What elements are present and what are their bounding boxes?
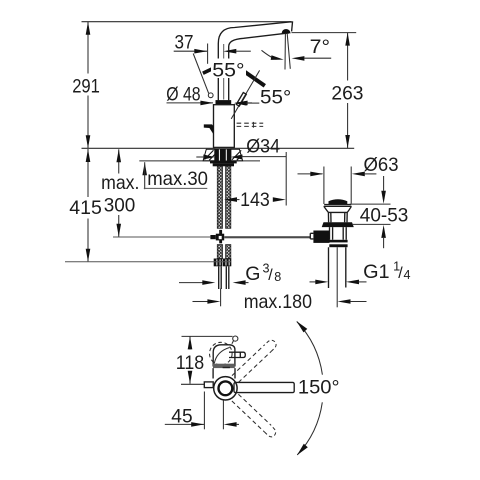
55deg second axis diagonal [231, 70, 259, 119]
plan view: body ring band [213, 364, 235, 368]
svg-text:55°: 55° [260, 87, 291, 109]
plan view: top extension line [182, 335, 233, 337]
55deg swivel tick thin left [193, 54, 209, 94]
dim 415 vertical [86, 149, 91, 262]
dim 143 [224, 152, 286, 206]
max.30 leader arrow [142, 162, 207, 189]
svg-text:37: 37 [175, 32, 194, 54]
svg-text:8: 8 [274, 270, 281, 284]
reference line lower (hose end level) [65, 261, 231, 263]
drain flange [324, 205, 352, 223]
svg-text:150°: 150° [298, 376, 340, 398]
dim max300 vertical [116, 149, 121, 237]
dim Ø34 leader [196, 155, 286, 160]
cross fitting [219, 230, 222, 243]
svg-text:G1: G1 [363, 261, 390, 283]
wire spout tip reference right [292, 32, 357, 34]
svg-text:143: 143 [240, 189, 270, 211]
dim 40-53 [350, 176, 391, 248]
150deg arc arrows [297, 321, 308, 332]
wire top reference line [82, 21, 292, 23]
mounting clamp left (hatched) [203, 149, 215, 161]
svg-text:415: 415 [69, 197, 102, 219]
drain body [330, 227, 347, 240]
150deg arc upper [297, 322, 323, 375]
spout joint bar [216, 100, 232, 104]
svg-text:Ø34: Ø34 [246, 136, 280, 158]
dim text G3/8 [245, 261, 281, 285]
150deg arc lower [297, 402, 322, 455]
faucet body [214, 105, 235, 148]
pop-up rod to drain [224, 236, 310, 238]
mounting nut [213, 163, 234, 166]
supply hose upper left strip [217, 166, 222, 228]
connection nut left [214, 259, 223, 267]
connection nut right [223, 259, 232, 267]
55deg second leader arrow [234, 101, 259, 106]
supply pipe right [225, 266, 227, 289]
spout inner wall [229, 33, 289, 100]
svg-text:45: 45 [171, 406, 192, 428]
svg-text:40-53: 40-53 [360, 205, 409, 227]
dim Ø63 [298, 167, 377, 205]
dim max.180 [193, 289, 367, 307]
drain tailpiece centerline [336, 247, 338, 307]
7deg right arrow [292, 56, 332, 61]
svg-text:118: 118 [176, 352, 204, 374]
plan view: aerator tube [229, 352, 245, 357]
dim 118 vertical [188, 336, 193, 383]
svg-text:300: 300 [104, 195, 136, 217]
drain collar nut [322, 222, 354, 227]
reference line hose-rod level [113, 236, 210, 238]
svg-text:4: 4 [404, 268, 411, 282]
plan view: spout swivel dashed circle [210, 342, 233, 365]
svg-text:291: 291 [72, 76, 100, 98]
plan view: cartridge inner circle [219, 381, 233, 395]
plan view: handle dashed lower cap [265, 425, 276, 437]
7deg arc with arrow [262, 50, 277, 59]
55deg hook circle [208, 93, 213, 98]
body axis dashed lines [237, 122, 264, 124]
overflow pipe to left [310, 233, 313, 239]
drain tailpiece [329, 247, 346, 288]
svg-text:Ø 48: Ø 48 [166, 83, 200, 105]
plan view: handle dashed upper cap [265, 340, 276, 351]
plan view: front tab [204, 382, 213, 388]
shank through countertop [215, 149, 231, 161]
svg-text:263: 263 [331, 83, 363, 105]
aerator at spout tip [282, 29, 291, 33]
plan view: bottom extension line [181, 383, 204, 385]
supply pipe left [218, 266, 220, 289]
mounting clamp right (hatched) [231, 149, 243, 161]
countertop bottom line [139, 160, 260, 162]
plan view: handle dashed lower [232, 394, 271, 432]
svg-text:G: G [245, 263, 260, 285]
plan view: body lower [213, 368, 235, 378]
svg-text:max.30: max.30 [147, 168, 208, 190]
plan view: handle bar solid [234, 382, 294, 392]
handle lever [204, 124, 214, 134]
7deg reference lines at tip [285, 34, 290, 70]
supply hose lower left strip [217, 245, 222, 259]
dim 263 vertical [345, 33, 350, 148]
dim G1 1/4 [310, 280, 367, 285]
svg-text:/: / [268, 267, 273, 284]
svg-text:7°: 7° [310, 36, 330, 58]
drain bottom flange [329, 240, 347, 243]
drain side outlet block [313, 231, 329, 243]
washer [210, 161, 237, 164]
dim text 55deg first [211, 59, 246, 79]
countertop top line [82, 147, 355, 149]
plan view: handle dashed upper [232, 345, 271, 383]
dim 45 [165, 392, 239, 430]
supply hose lower right strip [226, 245, 231, 259]
dim 291 vertical [86, 22, 91, 149]
spout centerline [223, 44, 225, 100]
55deg thick tick left [203, 65, 221, 74]
55deg thick tick right [242, 70, 265, 86]
plan view: spout tip circle [233, 336, 238, 341]
plan view: body outer circle [214, 377, 237, 400]
svg-text:max.: max. [101, 172, 139, 194]
55deg second slider symbol [236, 93, 246, 107]
svg-text:max.180: max.180 [244, 291, 312, 313]
plan view: faucet body top [213, 345, 235, 367]
svg-text:55°: 55° [212, 59, 244, 81]
plan view: spout inner curve [214, 348, 229, 364]
spout outer wall [218, 22, 292, 100]
supply hose upper right strip [226, 166, 231, 228]
svg-text:Ø63: Ø63 [364, 154, 399, 176]
dim 37 [174, 44, 251, 64]
dim text G1 1/4 [363, 259, 410, 283]
dim Ø48 [167, 101, 253, 106]
dim G3/8 [179, 280, 249, 285]
drain plug top [329, 199, 348, 204]
